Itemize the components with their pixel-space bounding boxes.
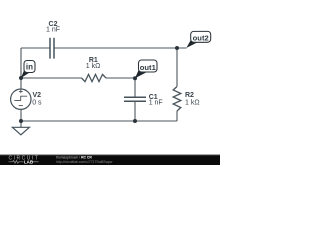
wire top rail right of C2: [54, 47, 187, 49]
wire left vertical (in column): [20, 48, 22, 89]
svg-text:out2: out2: [193, 34, 209, 43]
node out1 flag: [135, 60, 157, 78]
capacitor C2: [50, 38, 54, 59]
wire bottom rail: [21, 120, 177, 122]
wire V2 bottom to ground: [20, 109, 22, 127]
svg-text:1 kΩ: 1 kΩ: [185, 100, 200, 107]
junction node at out1: [133, 76, 137, 80]
svg-text:1 nF: 1 nF: [149, 100, 163, 107]
svg-text:V2: V2: [33, 92, 42, 99]
svg-text:in: in: [26, 63, 33, 72]
wire top rail left of C2: [21, 47, 50, 49]
resistor R2: [173, 87, 181, 112]
wire middle rail left of R1: [21, 77, 82, 79]
svg-text:LAB: LAB: [24, 159, 33, 164]
node out2 flag: [186, 31, 210, 48]
wire R2 column above resistor: [176, 48, 178, 87]
svg-text:R2: R2: [185, 92, 194, 99]
svg-text:1 nF: 1 nF: [46, 27, 60, 34]
svg-text:0 s: 0 s: [32, 100, 42, 107]
voltage source V2: [11, 89, 31, 109]
CircuitLab logo: [9, 156, 40, 165]
svg-text:1 kΩ: 1 kΩ: [86, 63, 101, 70]
resistor R1: [82, 74, 107, 81]
junction node V2 bottom: [19, 119, 23, 123]
svg-text:out1: out1: [140, 63, 157, 72]
node in flag: [21, 61, 35, 79]
capacitor C1: [124, 97, 146, 101]
wire out1 column below C1: [134, 101, 136, 121]
wire middle rail right of R1: [106, 77, 135, 79]
wire R2 column below resistor: [176, 111, 178, 121]
junction node at in: [19, 76, 23, 80]
wire out1 column above C1: [134, 78, 136, 97]
junction node at out2 / R2 top: [175, 46, 179, 50]
svg-text:http://circuitlab.com/c/7727Sw: http://circuitlab.com/c/7727SwBSwpw: [56, 160, 113, 164]
branding bar: [0, 155, 220, 165]
junction node C1 bottom: [133, 119, 137, 123]
ground: [12, 127, 29, 135]
